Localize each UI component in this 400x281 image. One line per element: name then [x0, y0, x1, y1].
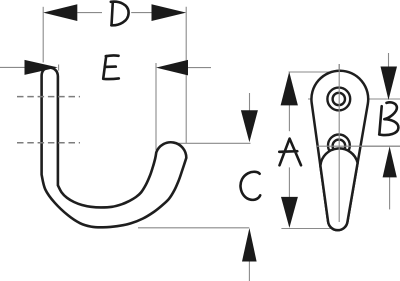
- plate vertical centerline over dome: [338, 64, 340, 222]
- E dimension tail left: [0, 66, 25, 68]
- E arrowhead right: [156, 60, 188, 76]
- C arrowhead top: [241, 110, 258, 142]
- plate front view outline: [311, 71, 368, 230]
- A bottom reference line: [281, 228, 344, 230]
- hole centerline horizontal bottom: [316, 145, 400, 147]
- C arrowhead bottom: [242, 228, 257, 262]
- A dimension line lower segment: [288, 167, 290, 197]
- D arrowhead right: [152, 4, 187, 21]
- E extension tick left: [58, 65, 60, 71]
- D dimension line right segment: [131, 12, 151, 14]
- B leader vertical bottom: [389, 177, 391, 209]
- C bottom reference line: [138, 227, 249, 229]
- B leader vertical top: [388, 53, 390, 67]
- label D: [111, 2, 129, 26]
- D dimension extension line left: [42, 7, 44, 63]
- A top reference line: [289, 71, 340, 73]
- hook front silhouette (dome over plate): [320, 148, 357, 230]
- top hole inner circle: [333, 93, 345, 105]
- E extension line right: [155, 63, 157, 150]
- C leader vertical bottom: [248, 261, 250, 281]
- label B: [379, 102, 398, 135]
- C leader vertical top: [249, 93, 251, 111]
- B arrowhead top: [381, 67, 398, 101]
- plate vertical centerline: [338, 64, 340, 222]
- A arrowhead top: [281, 72, 298, 106]
- E arrowhead left: [25, 60, 58, 75]
- top hole outer circle: [327, 88, 350, 111]
- C top reference line: [163, 142, 251, 144]
- A arrowhead bottom: [281, 197, 298, 228]
- E dimension tail right: [188, 67, 211, 69]
- label A: [279, 139, 301, 166]
- hole centerline horizontal top: [308, 98, 400, 100]
- D dimension line left segment: [77, 12, 102, 14]
- label C: [240, 172, 260, 200]
- A dimension line upper segment: [288, 105, 290, 131]
- hook side view outline: [42, 68, 187, 228]
- B arrowhead bottom: [383, 146, 397, 177]
- centerline dashed lower (side view): [17, 142, 80, 144]
- lower hole inner circle: [333, 140, 346, 153]
- label E: [103, 55, 119, 79]
- D arrowhead left: [43, 4, 77, 21]
- centerline dashed upper (side view): [17, 96, 80, 98]
- lower hole outer circle: [328, 135, 350, 157]
- lower hole centerline over dome: [316, 145, 400, 147]
- D dimension extension line right: [185, 7, 187, 143]
